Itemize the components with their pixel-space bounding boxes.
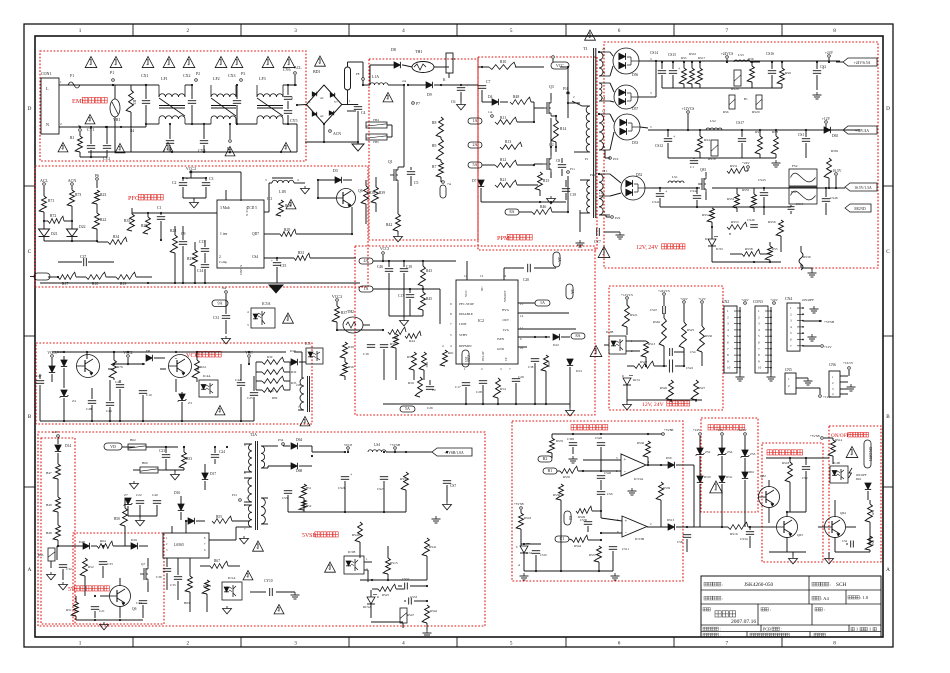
HVG tag 1A	[518, 300, 550, 306]
zener Z4 b	[60, 390, 76, 421]
svg-text:ACL: ACL	[40, 178, 49, 183]
diode D16 b	[185, 518, 205, 524]
ground T2	[240, 527, 249, 544]
warning triangle CY10	[274, 605, 284, 614]
svg-text:CN2: CN2	[722, 300, 729, 304]
svg-text:D52: D52	[636, 173, 642, 177]
power tag +24VCS reg	[658, 289, 670, 306]
svg-text:CON3: CON3	[753, 300, 763, 304]
svg-text:13: 13	[602, 210, 606, 214]
stadium tag 8A a	[505, 204, 532, 215]
wire regulator opto	[604, 341, 609, 345]
connector CON3	[753, 300, 772, 373]
inductor LS1	[668, 175, 684, 183]
svg-text:Q6: Q6	[358, 189, 363, 193]
svg-text:REFMIN: REFMIN	[459, 344, 472, 348]
capacitor CX3 node P3	[228, 72, 245, 125]
svg-text:RS42: RS42	[430, 609, 437, 613]
svg-text:D511: D511	[726, 475, 733, 479]
svg-text:3: 3	[294, 641, 297, 647]
tag 7A	[440, 181, 452, 198]
op-amp IC53A	[616, 454, 650, 481]
svg-text:CS44: CS44	[796, 202, 803, 206]
diode D3	[317, 169, 352, 199]
svg-text:RS39: RS39	[803, 255, 811, 259]
svg-text:+: +	[186, 177, 188, 181]
svg-text:D61: D61	[749, 470, 755, 474]
5V UVP block label	[68, 586, 109, 593]
svg-text:2A: 2A	[402, 79, 407, 83]
svg-text:K: K	[443, 78, 446, 82]
ground RS59	[801, 264, 817, 277]
OVP block outline	[701, 418, 758, 512]
connector CN2	[722, 300, 741, 373]
resistor RS55	[742, 188, 756, 212]
resistor R64	[97, 539, 131, 548]
svg-text:IC4A: IC4A	[203, 374, 211, 378]
svg-text:IC3: IC3	[305, 342, 311, 346]
capacitor CS47	[650, 306, 666, 314]
opto IC7 small	[267, 183, 310, 216]
svg-text:RS44: RS44	[574, 544, 581, 548]
svg-text:R56: R56	[748, 57, 754, 61]
svg-text::: :	[770, 607, 771, 612]
resistor B51	[299, 466, 312, 512]
svg-text:B: B	[28, 414, 32, 420]
svg-text:R64: R64	[100, 539, 106, 543]
zener Z3	[176, 392, 192, 421]
resistor RS35 block	[547, 433, 662, 458]
power tag VCC a	[245, 351, 253, 365]
tag ACT	[52, 430, 60, 444]
resistor R34	[97, 231, 132, 244]
transistor Q64	[818, 500, 846, 552]
diode D22	[67, 225, 86, 242]
svg-text:CS12: CS12	[655, 144, 663, 148]
PFC controller IC1	[217, 200, 264, 275]
svg-text:13: 13	[480, 274, 484, 278]
wire Q3 gate	[533, 108, 543, 123]
resistor R31	[264, 251, 356, 260]
ground CY10	[291, 590, 300, 599]
12V/24V feedback block outline	[604, 42, 878, 268]
svg-text:VR1: VR1	[113, 117, 121, 122]
resistor RS41	[422, 512, 437, 580]
5vsb return bus	[288, 511, 406, 513]
wire fb rail3 bus	[662, 187, 664, 189]
PWM control block outline	[355, 246, 595, 415]
svg-text:7: 7	[726, 28, 729, 34]
svg-text:CS47: CS47	[650, 308, 657, 312]
svg-text:6: 6	[618, 641, 621, 647]
power tag CN5 12V	[806, 388, 831, 399]
resistor R46	[532, 205, 568, 214]
svg-text:R11: R11	[500, 116, 506, 120]
svg-text:5V: 5V	[68, 587, 76, 593]
ground opamp A	[628, 476, 637, 495]
interlock top wire	[766, 457, 829, 459]
svg-text:C: C	[886, 249, 890, 255]
warning triangle EMI 4	[163, 57, 175, 68]
EMI filter block outline	[40, 51, 306, 161]
capacitor CS17	[736, 121, 746, 158]
warning triangle OVP	[710, 481, 723, 493]
svg-text:R34: R34	[113, 235, 119, 239]
resistor RS40	[352, 512, 362, 558]
svg-text:+24V: +24V	[741, 298, 749, 302]
svg-text:R3: R3	[132, 100, 136, 105]
svg-text:VCC: VCC	[464, 289, 468, 297]
zener Z4 a	[61, 356, 67, 388]
svg-text:+24V: +24V	[742, 161, 750, 165]
svg-text:ACL: ACL	[294, 66, 302, 70]
svg-text:P21: P21	[590, 173, 595, 177]
capacitor C9	[179, 226, 187, 282]
capacitor C5	[407, 167, 419, 186]
resistor RS25 reg	[679, 322, 694, 366]
svg-text:B50: B50	[114, 517, 120, 521]
svg-text:P12: P12	[232, 493, 237, 497]
svg-text:CS30: CS30	[580, 518, 587, 522]
svg-text:RS30: RS30	[705, 334, 712, 338]
svg-text:L: L	[46, 86, 49, 91]
wire OVP to interlock	[694, 526, 762, 528]
node SA	[226, 303, 228, 305]
svg-text:CX1: CX1	[141, 73, 149, 78]
svg-text:4: 4	[291, 96, 293, 100]
stadium tag 8A b	[571, 333, 585, 339]
capacitor C35	[170, 558, 182, 600]
transistor Q82	[759, 458, 780, 520]
resistor R39a	[352, 180, 375, 224]
capacitor C22	[136, 493, 144, 516]
svg-text:ISEN: ISEN	[497, 337, 505, 341]
svg-text:P2: P2	[196, 72, 200, 76]
svg-text:+24V: +24V	[825, 51, 834, 55]
node P5	[227, 123, 231, 151]
ground C23 B53	[166, 470, 184, 480]
fuse F1	[68, 73, 113, 88]
wire IC1 pins	[175, 235, 217, 258]
op-amp IC53B	[617, 516, 652, 541]
capacitor CS34	[740, 526, 754, 548]
svg-text:C16: C16	[363, 352, 369, 356]
resistor RS38 b	[637, 441, 650, 466]
OCP block label 过流保护电路	[571, 425, 608, 430]
svg-text:10: 10	[758, 366, 762, 370]
resistor R61 b	[440, 330, 454, 404]
opto IC3	[305, 342, 323, 364]
svg-text:C20: C20	[523, 278, 529, 282]
svg-text:IC3B: IC3B	[606, 330, 614, 334]
svg-text:1: 1	[60, 80, 62, 84]
wire VCC row	[196, 364, 258, 388]
svg-text:RS22: RS22	[640, 360, 647, 364]
ground B60	[130, 472, 139, 489]
svg-text:+12VCS: +12VCS	[682, 107, 695, 111]
resistor R17	[48, 272, 76, 286]
ground CN5	[804, 378, 813, 385]
ground CN6	[847, 382, 856, 391]
svg-text:RS4: RS4	[704, 138, 710, 142]
capacitor CS31	[282, 466, 292, 512]
resistor B55	[212, 515, 250, 523]
resistor R60	[419, 352, 429, 380]
warning triangle EMI 5	[183, 57, 195, 68]
svg-text:CN5: CN5	[785, 368, 792, 372]
svg-text:1A: 1A	[488, 110, 493, 114]
svg-text:TH2: TH2	[347, 310, 354, 314]
svg-text:D3: D3	[333, 169, 338, 173]
svg-text:RS58: RS58	[745, 247, 753, 251]
opto IC4A	[199, 374, 218, 397]
resistor RS26	[660, 366, 673, 402]
capacitor CS10	[532, 544, 547, 571]
svg-text:RS10: RS10	[689, 52, 696, 56]
shunt ref RCS2	[363, 590, 379, 618]
svg-text:CSS: CSS	[466, 355, 470, 361]
resistor R11	[495, 116, 534, 124]
power tag VCC3 b	[380, 247, 389, 262]
diode D14	[55, 444, 72, 464]
svg-text:JSK4260-050: JSK4260-050	[744, 582, 773, 588]
diode D9	[408, 78, 478, 97]
svg-text:R46: R46	[540, 205, 546, 209]
capacitor C21	[91, 595, 105, 618]
wire interlock top link	[745, 450, 766, 458]
svg-text:Q6: Q6	[132, 607, 137, 611]
capacitor CY6	[283, 67, 293, 107]
warning triangle T2	[253, 530, 264, 551]
svg-text:Comp: Comp	[219, 260, 227, 264]
wire PWM vertical bus	[515, 66, 569, 213]
warning triangle bottom 2	[85, 115, 95, 124]
svg-text:RS27: RS27	[698, 386, 705, 390]
svg-text:C2: C2	[432, 388, 436, 392]
regulator ground bus	[627, 352, 702, 401]
diode D61	[856, 468, 871, 500]
capacitor C33	[99, 545, 113, 578]
svg-text:RS15: RS15	[390, 561, 398, 565]
svg-text:C: C	[28, 249, 32, 255]
svg-text:PPM: PPM	[497, 235, 510, 242]
svg-text:CY5: CY5	[290, 118, 298, 123]
pin10 wire	[518, 347, 527, 404]
output tag 5VSB	[430, 448, 472, 456]
svg-text:CS7: CS7	[450, 484, 456, 488]
capacitor C47	[36, 374, 44, 421]
svg-text:LF3: LF3	[259, 76, 266, 81]
svg-text:D64: D64	[296, 438, 302, 442]
svg-text:D21: D21	[51, 232, 58, 236]
resistor RS17	[695, 56, 705, 88]
resistor B65 block	[38, 546, 58, 568]
wire bridge top	[348, 104, 359, 106]
capacitor C7	[478, 66, 491, 102]
wire T1 primary	[568, 55, 580, 232]
svg-text:RS52: RS52	[702, 213, 710, 217]
svg-text:R40: R40	[392, 336, 398, 340]
svg-text::: :	[824, 607, 825, 612]
resistor R13	[500, 140, 556, 149]
stadium tag 9A	[212, 286, 228, 312]
resistor R14	[551, 116, 566, 152]
svg-text:+12VCS: +12VCS	[621, 293, 633, 297]
resistor R21	[495, 178, 538, 187]
svg-text:+5VSB: +5VSB	[824, 320, 835, 324]
capacitor C15	[271, 258, 286, 283]
svg-text:RS5: RS5	[772, 247, 778, 251]
resistor B65 b	[184, 558, 192, 612]
stadium tag 4A	[359, 258, 467, 280]
svg-text:R61: R61	[448, 351, 454, 355]
warning triangle EMI 3	[142, 57, 154, 68]
resistor RS44	[572, 533, 622, 548]
wire opto out	[364, 562, 372, 582]
resistor RS36	[553, 471, 563, 570]
svg-text:D68: D68	[296, 469, 302, 473]
svg-text:C5: C5	[414, 181, 419, 185]
svg-text:RCS1: RCS1	[633, 378, 641, 382]
svg-text:D65: D65	[832, 134, 838, 138]
wire D7 bottom bus	[481, 196, 566, 203]
rectifier D57	[610, 83, 652, 111]
PWM drive block outline	[478, 57, 597, 250]
capacitor CS8	[677, 526, 691, 552]
svg-text:N: N	[46, 122, 49, 127]
VCC top bus	[87, 351, 197, 380]
resistor RS47	[400, 601, 414, 628]
svg-text:RS5: RS5	[681, 56, 687, 60]
svg-text:B60: B60	[142, 461, 148, 465]
svg-text:LVG: LVG	[503, 328, 510, 332]
svg-text:LINE: LINE	[459, 322, 467, 326]
svg-text:RS32: RS32	[400, 477, 408, 481]
capacitor CS7	[443, 451, 457, 502]
svg-text:5A: 5A	[405, 406, 410, 411]
capacitor C8	[556, 158, 575, 176]
svg-text:12: 12	[464, 274, 468, 278]
resistor RS25 b	[372, 584, 404, 597]
svg-text:C309: C309	[567, 437, 574, 441]
capacitor CS15	[668, 53, 681, 88]
capacitor CY3	[164, 123, 174, 153]
ON/OFF control block outline	[829, 426, 881, 562]
svg-text:D56: D56	[632, 73, 638, 77]
svg-text:R27: R27	[187, 257, 193, 261]
svg-text:R35: R35	[124, 219, 130, 223]
svg-text:Q1: Q1	[388, 160, 393, 164]
svg-text:P19: P19	[613, 157, 619, 161]
diode D512	[742, 470, 755, 527]
svg-text:CS29: CS29	[595, 436, 602, 440]
svg-text:CS17: CS17	[736, 121, 744, 125]
svg-text:VD: VD	[110, 444, 116, 449]
svg-text:CY6: CY6	[283, 67, 291, 72]
capacitor CY1	[78, 124, 95, 157]
capacitor C1 s	[690, 158, 698, 169]
svg-text:BD1: BD1	[313, 69, 321, 74]
svg-text:D17: D17	[210, 472, 216, 476]
svg-text:C2: C2	[172, 181, 177, 185]
PWM control block label 控制电路	[497, 234, 532, 242]
wire opamp B inputs	[600, 518, 622, 534]
svg-text:RS47: RS47	[407, 613, 414, 617]
svg-text:1: 1	[79, 641, 82, 647]
diode D511	[719, 475, 733, 527]
svg-text:R52: R52	[88, 565, 94, 569]
stadium tag 1A b	[468, 118, 495, 124]
svg-text:CS15: CS15	[668, 53, 676, 57]
resistor B48	[46, 525, 60, 546]
svg-text::: :	[722, 582, 723, 587]
IC2 bottom C29	[512, 364, 524, 404]
svg-text:GND: GND	[497, 347, 505, 351]
svg-text:+12V: +12V	[698, 297, 706, 301]
wire PFC bottom bus	[40, 262, 360, 284]
rectifier D53	[610, 114, 652, 150]
EMI R4 label	[130, 129, 134, 133]
capacitor CS1	[798, 129, 810, 158]
svg-text:B49: B49	[46, 503, 52, 507]
svg-text:L6565: L6565	[174, 543, 184, 547]
filter inductor LF1	[159, 76, 185, 124]
EMI L wire	[66, 84, 159, 86]
resistor RS59	[781, 246, 812, 270]
wire Q2 gate	[533, 164, 543, 166]
resistor RS39 b	[656, 464, 670, 527]
warning triangle T1 top	[580, 30, 595, 55]
inductor L1A	[370, 75, 404, 85]
capacitor C4	[354, 105, 366, 144]
resistor RS18	[782, 458, 792, 486]
svg-text:R57: R57	[407, 355, 413, 359]
capacitor CS46	[822, 187, 838, 215]
svg-text:13: 13	[602, 109, 606, 113]
svg-text:VCC2: VCC2	[186, 166, 196, 171]
svg-text:C49: C49	[106, 409, 112, 413]
node junction dots PFC	[148, 239, 217, 241]
svg-text:C38: C38	[528, 365, 534, 369]
wire IC6 to T2	[209, 527, 244, 540]
ground 5vsb fb	[423, 628, 432, 637]
svg-text:CS41: CS41	[652, 200, 660, 204]
svg-text:B: B	[886, 414, 890, 420]
resistor RS35 c	[560, 466, 621, 479]
svg-text:C37: C37	[80, 255, 86, 259]
svg-text:C35: C35	[170, 583, 176, 587]
svg-text:+12V: +12V	[822, 117, 831, 121]
vertical tag ONOFF1	[864, 440, 872, 468]
node P34	[268, 438, 290, 446]
svg-text:C13: C13	[199, 240, 205, 244]
svg-text:Q82: Q82	[760, 474, 766, 478]
opto IC5A	[226, 302, 275, 328]
wire PFC out	[347, 85, 356, 111]
svg-text:VCC3: VCC3	[380, 247, 389, 251]
svg-text:C6: C6	[451, 100, 456, 104]
feedback D53 12VCS wire	[687, 130, 689, 131]
resistor RS32	[400, 451, 408, 512]
capacitor CS4 r	[664, 346, 696, 356]
resistor RS37	[589, 540, 601, 571]
svg-text:R29: R29	[284, 228, 290, 232]
svg-text:+5VSB: +5VSB	[810, 434, 820, 438]
stadium tag 5A c	[400, 406, 433, 412]
resistor B60 block	[133, 461, 170, 473]
svg-text:3 Mult: 3 Mult	[220, 206, 230, 210]
svg-text:C14: C14	[197, 269, 203, 273]
